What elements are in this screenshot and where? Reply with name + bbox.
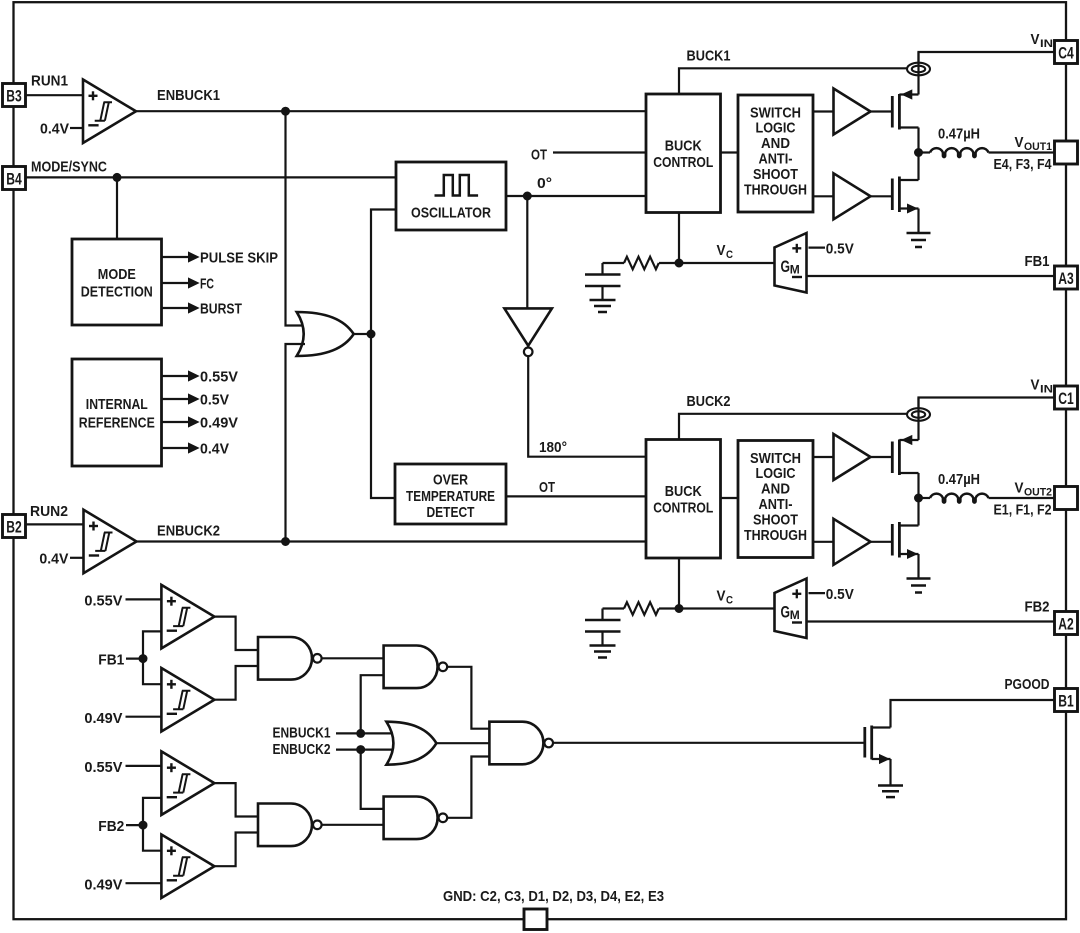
- wire FB1 to window comparators: [126, 657, 143, 659]
- pin VOUT2 (unlabeled): [1055, 487, 1078, 510]
- node VC1 junction: [675, 259, 683, 267]
- comparator U1 RUN1 vs 0.4V: [83, 80, 136, 144]
- wire PGOOD from transistor drain to pin B1: [891, 700, 1055, 728]
- wire FB2 from pin to GM2 inverting input: [807, 620, 1055, 622]
- svg-text:FB2: FB2: [1025, 599, 1050, 616]
- wire ENBUCK1 from U1 output to BUCK CONTROL 1: [136, 110, 646, 112]
- transistor bottom NMOS switch 2: [892, 498, 918, 579]
- svg-text:ENBUCK1: ENBUCK1: [157, 87, 220, 104]
- svg-text:B2: B2: [6, 518, 22, 536]
- svg-text:IN: IN: [1040, 384, 1053, 396]
- arrow reference output 0.5V: [162, 398, 190, 400]
- svg-text:TEMPERATURE: TEMPERATURE: [406, 488, 495, 505]
- ferrite bead VIN 1: [907, 52, 930, 75]
- ground below NMOS switch 1: [907, 233, 931, 247]
- comparator window upper FB1: [161, 585, 214, 649]
- svg-text:GND: C2, C3, D1, D2, D3, D4, E: GND: C2, C3, D1, D2, D3, D4, E2, E3: [443, 888, 664, 905]
- wire VIN 1 to pin: [919, 52, 1055, 63]
- wire OT from OVER TEMPERATURE DETECT to BUCK CONTROL 2: [506, 495, 646, 497]
- pin B2 RUN2: [3, 515, 26, 538]
- pin C4 VIN1: [1055, 41, 1078, 64]
- wire lower window comparator 2 output to NAND: [214, 833, 258, 867]
- svg-text:THROUGH: THROUGH: [744, 527, 807, 544]
- wire ENBUCK2 to PGOOD OR gate: [336, 748, 395, 750]
- wire PGOOD final NAND output to pulldown transistor gate: [553, 742, 864, 744]
- wire FB2 to window comparators: [126, 824, 143, 826]
- inductor L1 0.47uH: [919, 151, 931, 153]
- svg-text:0.4V: 0.4V: [39, 550, 68, 567]
- node SW1 switch node: [915, 149, 923, 157]
- wire ENBUCK2 up to OR gate U2 input 2: [286, 344, 306, 542]
- wire upper window comparator 1 output to NAND: [214, 617, 258, 650]
- svg-text:OUT1: OUT1: [1024, 141, 1052, 153]
- node VC2 junction: [675, 605, 683, 613]
- wire U2 output down to OVER TEMPERATURE DETECT: [371, 334, 395, 498]
- node ENBUCK1 PGOOD junction: [357, 729, 365, 737]
- svg-text:C4: C4: [1058, 44, 1074, 62]
- ground below PGOOD transistor: [878, 786, 903, 798]
- wire PGOOD OR output to final NAND: [436, 742, 489, 744]
- svg-text:CONTROL: CONTROL: [653, 154, 713, 171]
- comparator window lower FB2: [161, 835, 214, 899]
- wire VC1 from resistor to error amp GM1: [659, 262, 775, 264]
- inverter U3 180° phase: [504, 308, 552, 356]
- svg-text:PGOOD: PGOOD: [1005, 676, 1050, 693]
- svg-text:DETECT: DETECT: [427, 504, 475, 521]
- svg-text:REFERENCE: REFERENCE: [79, 415, 155, 432]
- error amplifier GM2: [775, 579, 807, 639]
- svg-text:B1: B1: [1058, 692, 1074, 710]
- block OSCILLATOR: [396, 162, 506, 230]
- svg-text:RUN2: RUN2: [30, 503, 68, 520]
- svg-text:V: V: [1015, 134, 1024, 151]
- wire U2 output to junction: [354, 333, 368, 335]
- arrow output BURST: [162, 307, 190, 309]
- svg-text:OSCILLATOR: OSCILLATOR: [411, 205, 491, 222]
- wire FB1 from pin to GM1 inverting input: [807, 275, 1055, 277]
- svg-text:FB1: FB1: [1025, 253, 1050, 270]
- NAND gate window FB1: [258, 637, 322, 680]
- block OVER TEMPERATURE DETECT: [395, 464, 506, 524]
- svg-text:G: G: [781, 603, 791, 622]
- wire BUCK CONTROL 1 to switch logic: [721, 151, 739, 153]
- wire FB1 link to comparator inputs: [143, 631, 161, 684]
- node ENBUCK2 junction: [282, 538, 290, 546]
- svg-text:C: C: [726, 595, 733, 607]
- block SWITCH LOGIC AND ANTI-SHOOT THROUGH 1: [738, 95, 813, 212]
- svg-text:G: G: [781, 257, 791, 276]
- transistor top PMOS switch 1: [892, 75, 918, 153]
- svg-text:0.49V: 0.49V: [84, 710, 122, 727]
- capacitor compensation C2: [585, 609, 621, 646]
- wire FB2 link to comparator inputs: [143, 798, 161, 851]
- svg-text:BUCK1: BUCK1: [687, 48, 731, 65]
- wire 180° from inverter U3 to BUCK CONTROL 2: [528, 356, 646, 457]
- svg-text:RUN1: RUN1: [31, 72, 68, 89]
- wire MODE/SYNC junction down to MODE DETECTION block: [116, 177, 118, 239]
- wire ENBUCK1 junction up to PGOOD NAND A: [361, 675, 384, 733]
- block INTERNAL REFERENCE: [72, 359, 162, 466]
- arrow reference output 0.4V: [162, 447, 190, 449]
- NAND gate PGOOD A: [384, 646, 448, 689]
- svg-text:M: M: [790, 608, 800, 622]
- arrow output FC: [162, 282, 190, 284]
- block BUCK CONTROL 2: [646, 440, 721, 559]
- wire 0° node down to phase inverter U3: [526, 196, 528, 308]
- resistor compensation R2: [603, 607, 625, 609]
- buffer bottom gate driver 2: [834, 519, 871, 565]
- wire BUCK CONTROL 2 to switch logic: [721, 497, 739, 499]
- svg-text:A3: A3: [1058, 270, 1074, 288]
- wire PGOOD NAND B output up to final NAND: [447, 757, 489, 818]
- svg-text:V: V: [1015, 480, 1024, 497]
- wire 0.4V reference to U4 inverting input: [70, 557, 84, 559]
- wire switch logic to bottom gate driver 2: [813, 541, 834, 543]
- transistor PGOOD pulldown NMOS Q1: [865, 726, 891, 786]
- svg-text:0.49V: 0.49V: [84, 877, 122, 894]
- svg-text:OT: OT: [531, 147, 547, 164]
- svg-text:B4: B4: [6, 170, 22, 188]
- wire bottom driver to NMOS gate 1: [871, 195, 892, 197]
- wire top driver to PMOS gate 2: [871, 456, 892, 458]
- wire RUN2 from pin B2 to comparator U4: [26, 523, 84, 525]
- svg-text:V: V: [717, 588, 726, 605]
- wire BUCK CONTROL 2 to VC2 node: [678, 558, 680, 609]
- svg-text:ENBUCK2: ENBUCK2: [157, 523, 220, 540]
- pin B3 RUN1: [3, 84, 26, 107]
- wire VC2 from resistor to error amp GM2: [659, 607, 775, 609]
- wire BUCK1 from control block to power stage: [679, 68, 907, 94]
- capacitor compensation C1: [585, 263, 621, 300]
- svg-text:THROUGH: THROUGH: [744, 181, 807, 198]
- transistor top PMOS switch 2: [892, 421, 918, 499]
- error amplifier GM1: [775, 233, 807, 293]
- wire oscillator 0° output to BUCK CONTROL 1: [506, 195, 646, 197]
- svg-text:BUCK: BUCK: [665, 138, 702, 155]
- wire switch logic to top gate driver 1: [813, 110, 834, 112]
- inductor L2 0.47uH: [919, 497, 931, 499]
- node FB1 window junction: [139, 655, 147, 663]
- svg-text:ENBUCK1: ENBUCK1: [273, 725, 331, 742]
- NAND gate PGOOD B: [384, 797, 448, 840]
- svg-text:0°: 0°: [537, 175, 552, 192]
- wire ENBUCK1 to PGOOD OR gate: [336, 732, 395, 734]
- svg-text:FC: FC: [200, 276, 214, 293]
- svg-text:0.49V: 0.49V: [200, 415, 238, 432]
- svg-text:ENBUCK2: ENBUCK2: [273, 741, 331, 758]
- svg-text:0.5V: 0.5V: [826, 586, 854, 603]
- wire BUCK CONTROL 1 to VC1 node: [678, 213, 680, 264]
- wire switch logic to bottom gate driver 1: [813, 195, 834, 197]
- comparator window upper FB2: [161, 751, 214, 815]
- svg-text:B3: B3: [6, 87, 22, 105]
- svg-text:V: V: [1031, 377, 1040, 394]
- wire 0.55V to window comparator upper 2: [126, 765, 162, 767]
- svg-text:0.55V: 0.55V: [84, 759, 122, 776]
- wire bottom driver to NMOS gate 2: [871, 541, 892, 543]
- svg-text:V: V: [1031, 31, 1040, 48]
- buffer top gate driver 1: [834, 89, 871, 135]
- ground below compensation cap C1: [590, 300, 616, 312]
- wire 0.5V reference to GM1: [809, 247, 826, 249]
- wire U2 output up to oscillator enable input: [371, 210, 396, 335]
- block SWITCH LOGIC AND ANTI-SHOOT THROUGH 2: [738, 441, 813, 558]
- svg-text:C: C: [726, 249, 733, 261]
- wire 0.55V to window comparator upper 1: [126, 598, 162, 600]
- wire RUN1 from pin B3 to comparator U1: [26, 94, 84, 96]
- resistor compensation R1: [603, 262, 625, 264]
- wire 0.5V reference to GM2: [809, 592, 826, 594]
- svg-text:V: V: [717, 242, 726, 259]
- svg-text:OT: OT: [539, 479, 555, 496]
- svg-text:0.47µH: 0.47µH: [938, 471, 980, 488]
- block MODE DETECTION: [72, 239, 162, 325]
- wire 0.4V reference to U1 inverting input: [70, 127, 83, 129]
- arrow output PULSE SKIP: [162, 256, 190, 258]
- pin C1 VIN2: [1055, 386, 1078, 409]
- node ENBUCK1 junction: [282, 107, 290, 115]
- node 0° junction: [523, 192, 531, 200]
- svg-text:180°: 180°: [539, 439, 567, 456]
- OR gate U2 enable combine: [297, 312, 354, 356]
- pin B4 MODE/SYNC: [3, 167, 26, 190]
- svg-text:OVER: OVER: [433, 472, 468, 489]
- svg-text:PULSE SKIP: PULSE SKIP: [200, 250, 278, 267]
- wire 0.49V to window comparator lower 1: [126, 716, 162, 718]
- block BUCK CONTROL 1: [646, 94, 721, 213]
- svg-text:OUT2: OUT2: [1024, 487, 1052, 499]
- pin A3 FB1: [1055, 266, 1078, 289]
- wire MODE/SYNC from pin B4 to oscillator: [26, 176, 397, 178]
- NAND gate PGOOD final: [489, 722, 553, 765]
- wire top driver to PMOS gate 1: [871, 110, 892, 112]
- svg-text:MODE: MODE: [98, 266, 136, 283]
- node MODE/SYNC junction: [113, 173, 121, 181]
- comparator window lower FB1: [161, 668, 214, 732]
- svg-text:0.47µH: 0.47µH: [938, 126, 980, 143]
- svg-text:E4, F3, F4: E4, F3, F4: [994, 156, 1053, 173]
- svg-text:E1, F1, F2: E1, F1, F2: [994, 502, 1052, 519]
- node FB2 window junction: [139, 821, 147, 829]
- svg-text:IN: IN: [1040, 38, 1053, 50]
- wire switch logic to top gate driver 2: [813, 456, 834, 458]
- pin GND (unlabeled): [524, 909, 547, 930]
- svg-text:0.55V: 0.55V: [200, 369, 238, 386]
- node ENBUCK2 PGOOD junction: [357, 746, 365, 754]
- buffer bottom gate driver 1: [834, 173, 871, 219]
- svg-text:INTERNAL: INTERNAL: [86, 396, 148, 413]
- svg-text:0.4V: 0.4V: [40, 120, 69, 137]
- ground below compensation cap C2: [590, 646, 616, 658]
- buffer top gate driver 2: [834, 434, 871, 480]
- wire PGOOD NAND A output down to final NAND: [447, 667, 489, 729]
- wire window NAND 2 output to PGOOD NAND B: [322, 824, 384, 826]
- wire OT to BUCK CONTROL 1: [553, 151, 646, 153]
- wire lower window comparator 1 output to NAND: [214, 666, 258, 700]
- wire ENBUCK2 from U4 output to BUCK CONTROL 2: [137, 540, 647, 542]
- svg-text:0.5V: 0.5V: [826, 241, 854, 258]
- wire upper window comparator 2 output to NAND: [214, 783, 258, 816]
- svg-text:FB1: FB1: [98, 652, 124, 669]
- transistor bottom NMOS switch 1: [892, 153, 918, 234]
- svg-text:A2: A2: [1058, 615, 1074, 633]
- svg-text:BURST: BURST: [200, 301, 242, 318]
- svg-text:FB2: FB2: [98, 818, 124, 835]
- svg-text:CONTROL: CONTROL: [653, 499, 713, 516]
- wire window NAND 1 output to PGOOD NAND A: [322, 657, 384, 659]
- svg-text:M: M: [790, 263, 800, 277]
- svg-text:MODE/SYNC: MODE/SYNC: [31, 158, 107, 175]
- OR gate PGOOD enable: [386, 722, 436, 765]
- node U2 output junction: [367, 330, 375, 338]
- comparator U4 RUN2 vs 0.4V: [84, 510, 137, 574]
- arrow reference output 0.55V: [162, 375, 190, 377]
- wire BUCK2 from control block to power stage: [679, 414, 907, 440]
- ferrite bead VIN 2: [907, 398, 930, 421]
- arrow reference output 0.49V: [162, 421, 190, 423]
- pin B1 PGOOD: [1055, 689, 1078, 712]
- svg-text:BUCK: BUCK: [665, 483, 702, 500]
- ground below NMOS switch 2: [907, 579, 931, 593]
- svg-text:0.55V: 0.55V: [84, 592, 122, 609]
- wire ENBUCK1 down to OR gate U2 input 1: [286, 111, 306, 325]
- pin VOUT1 (unlabeled): [1055, 141, 1078, 164]
- pin A2 FB2: [1055, 612, 1078, 635]
- node SW2 switch node: [915, 494, 923, 502]
- svg-text:C1: C1: [1058, 390, 1074, 408]
- wire ENBUCK2 junction down to PGOOD NAND B: [361, 750, 384, 809]
- wire 0.49V to window comparator lower 2: [126, 882, 162, 884]
- wire VIN 2 to pin: [919, 398, 1055, 409]
- svg-text:0.5V: 0.5V: [200, 392, 229, 409]
- svg-text:BUCK2: BUCK2: [687, 393, 731, 410]
- wire VOUT1 from inductor to pin: [989, 151, 1055, 153]
- svg-text:0.4V: 0.4V: [200, 441, 229, 458]
- wire VOUT2 from inductor to pin: [989, 497, 1055, 499]
- NAND gate window FB2: [258, 804, 322, 847]
- svg-text:DETECTION: DETECTION: [81, 284, 153, 301]
